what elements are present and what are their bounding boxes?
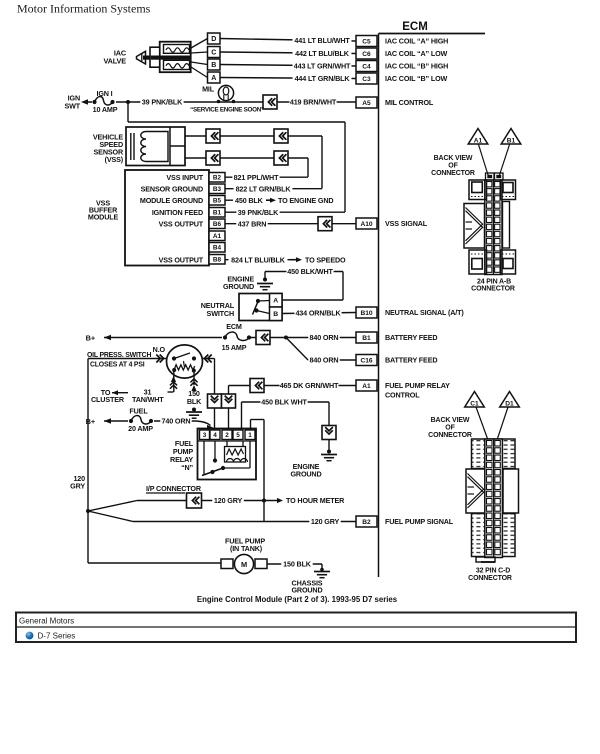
svg-text:IAC COIL “B” HIGH: IAC COIL “B” HIGH (385, 62, 448, 71)
svg-text:824 LT BLU/BLK: 824 LT BLU/BLK (231, 255, 286, 264)
svg-text:VSS INPUT: VSS INPUT (166, 173, 203, 182)
svg-text:BACK VIEW: BACK VIEW (431, 417, 470, 424)
svg-text:B2: B2 (362, 519, 371, 526)
svg-text:450 BLK: 450 BLK (235, 196, 264, 205)
svg-text:“SERVICE ENGINE SOON”: “SERVICE ENGINE SOON” (190, 107, 264, 114)
svg-text:ECM: ECM (402, 21, 428, 33)
svg-text:419 BRN/WHT: 419 BRN/WHT (290, 98, 337, 107)
svg-text:822 LT GRN/BLK: 822 LT GRN/BLK (236, 184, 292, 193)
svg-text:FUEL: FUEL (129, 407, 148, 416)
svg-text:ECM: ECM (226, 322, 242, 331)
svg-text:CONNECTOR: CONNECTOR (468, 575, 512, 582)
svg-text:TO SPEEDO: TO SPEEDO (305, 255, 346, 264)
svg-text:MIL CONTROL: MIL CONTROL (385, 98, 434, 107)
svg-text:Engine Control Module (Part 2: Engine Control Module (Part 2 of 3). 199… (197, 595, 398, 604)
svg-text:C1: C1 (470, 401, 479, 408)
svg-text:CONNECTOR: CONNECTOR (471, 286, 515, 293)
svg-text:B2: B2 (213, 175, 222, 182)
svg-text:5: 5 (236, 432, 240, 439)
svg-text:A5: A5 (362, 100, 371, 107)
svg-text:B6: B6 (213, 221, 222, 228)
svg-text:120 GRY: 120 GRY (311, 517, 340, 526)
svg-text:(IN TANK): (IN TANK) (230, 544, 263, 553)
svg-text:MODULE GROUND: MODULE GROUND (140, 196, 203, 205)
svg-text:CONTROL: CONTROL (385, 391, 420, 400)
svg-text:450 BLK WHT: 450 BLK WHT (261, 398, 307, 407)
svg-text:10 AMP: 10 AMP (93, 105, 118, 114)
svg-text:VSS OUTPUT: VSS OUTPUT (159, 256, 204, 265)
svg-text:“N”: “N” (181, 463, 193, 472)
svg-text:IAC COIL “A” HIGH: IAC COIL “A” HIGH (385, 37, 448, 46)
svg-text:B1: B1 (362, 335, 371, 342)
svg-text:NEUTRAL SIGNAL (A/T): NEUTRAL SIGNAL (A/T) (385, 308, 464, 317)
svg-text:C: C (211, 50, 216, 57)
svg-text:B1: B1 (213, 210, 222, 217)
svg-text:VSS SIGNAL: VSS SIGNAL (385, 219, 428, 228)
svg-text:C5: C5 (362, 38, 371, 45)
svg-text:N.O: N.O (153, 345, 166, 354)
svg-text:B8: B8 (213, 257, 222, 264)
svg-text:B3: B3 (213, 186, 222, 193)
svg-text:437 BRN: 437 BRN (238, 219, 267, 228)
svg-text:B: B (211, 62, 216, 69)
svg-text:B+: B+ (86, 417, 96, 426)
svg-text:VSS OUTPUT: VSS OUTPUT (159, 220, 204, 229)
svg-text:M: M (241, 560, 247, 569)
svg-text:840 ORN: 840 ORN (310, 333, 339, 342)
svg-text:A1: A1 (474, 138, 483, 145)
svg-text:B+: B+ (86, 333, 96, 342)
svg-text:443 LT GRN/WHT: 443 LT GRN/WHT (294, 61, 351, 70)
svg-text:GRY: GRY (70, 482, 85, 491)
svg-text:A: A (211, 75, 216, 82)
svg-text:OF: OF (448, 163, 458, 170)
svg-text:CONNECTOR: CONNECTOR (431, 170, 475, 177)
svg-text:A1: A1 (213, 233, 222, 240)
svg-text:39 PNK/BLK: 39 PNK/BLK (142, 98, 183, 107)
svg-text:465 DK GRN/WHT: 465 DK GRN/WHT (280, 381, 339, 390)
svg-text:D-7 Series: D-7 Series (38, 631, 76, 640)
svg-text:MIL: MIL (202, 85, 215, 94)
svg-text:B4: B4 (213, 245, 222, 252)
svg-text:C3: C3 (362, 76, 371, 83)
svg-text:FUEL PUMP RELAY: FUEL PUMP RELAY (385, 381, 450, 390)
svg-text:General Motors: General Motors (19, 617, 74, 626)
svg-text:(VSS): (VSS) (105, 155, 124, 164)
svg-text:TO HOUR METER: TO HOUR METER (286, 496, 345, 505)
svg-text:442 LT BLU/BLK: 442 LT BLU/BLK (295, 49, 350, 58)
svg-text:MODULE: MODULE (88, 213, 119, 222)
svg-text:A: A (273, 298, 278, 305)
svg-text:B5: B5 (213, 198, 222, 205)
svg-text:32 PIN C-D: 32 PIN C-D (476, 568, 510, 575)
svg-text:CLUSTER: CLUSTER (91, 395, 125, 404)
svg-text:OF: OF (445, 425, 455, 432)
svg-text:450 BLK/WHT: 450 BLK/WHT (287, 267, 333, 276)
svg-text:441 LT BLU/WHT: 441 LT BLU/WHT (294, 36, 350, 45)
svg-text:FUEL PUMP SIGNAL: FUEL PUMP SIGNAL (385, 517, 454, 526)
svg-text:GROUND: GROUND (223, 282, 254, 291)
svg-text:120 GRY: 120 GRY (214, 496, 243, 505)
svg-text:1: 1 (248, 432, 252, 439)
svg-text:SWITCH: SWITCH (207, 309, 234, 318)
svg-text:OIL PRESS. SWITCH: OIL PRESS. SWITCH (87, 352, 151, 359)
svg-text:444 LT GRN/BLK: 444 LT GRN/BLK (295, 74, 351, 83)
svg-text:IGN I: IGN I (96, 89, 112, 98)
svg-text:4: 4 (213, 432, 217, 439)
svg-text:C16: C16 (360, 357, 372, 364)
svg-text:BATTERY FEED: BATTERY FEED (385, 356, 437, 365)
svg-text:434 ORN/BLK: 434 ORN/BLK (295, 309, 341, 318)
svg-text:740 ORN: 740 ORN (162, 417, 191, 426)
svg-text:A1: A1 (362, 383, 371, 390)
svg-text:I/P CONNECTOR: I/P CONNECTOR (146, 484, 202, 493)
svg-text:BATTERY FEED: BATTERY FEED (385, 333, 437, 342)
svg-text:CONNECTOR: CONNECTOR (428, 432, 472, 439)
svg-text:D: D (211, 36, 216, 43)
svg-text:CLOSES AT 4 PSI: CLOSES AT 4 PSI (90, 362, 145, 369)
svg-text:821 PPL/WHT: 821 PPL/WHT (234, 173, 279, 182)
svg-text:840 ORN: 840 ORN (310, 356, 339, 365)
svg-text:BLK: BLK (187, 397, 202, 406)
svg-text:IAC COIL “B” LOW: IAC COIL “B” LOW (385, 74, 448, 83)
svg-text:2: 2 (225, 432, 229, 439)
svg-text:TO ENGINE GND: TO ENGINE GND (278, 196, 333, 205)
svg-text:C6: C6 (362, 51, 371, 58)
svg-text:15 AMP: 15 AMP (222, 343, 247, 352)
svg-text:B: B (273, 311, 278, 318)
svg-text:TAN/WHT: TAN/WHT (132, 395, 164, 404)
svg-text:GROUND: GROUND (290, 470, 321, 479)
svg-text:Motor Information Systems: Motor Information Systems (17, 2, 151, 16)
svg-text:24 PIN A-B: 24 PIN A-B (477, 279, 511, 286)
svg-text:150 BLK: 150 BLK (283, 560, 312, 569)
svg-text:SENSOR GROUND: SENSOR GROUND (141, 185, 203, 194)
svg-text:SWT: SWT (64, 102, 80, 111)
svg-text:BACK VIEW: BACK VIEW (434, 155, 473, 162)
svg-text:IAC COIL “A” LOW: IAC COIL “A” LOW (385, 49, 448, 58)
svg-text:IGNITION FEED: IGNITION FEED (152, 208, 203, 217)
svg-text:B1: B1 (507, 138, 516, 145)
svg-text:D1: D1 (505, 401, 514, 408)
svg-text:39 PNK/BLK: 39 PNK/BLK (238, 208, 279, 217)
svg-text:B10: B10 (360, 310, 372, 317)
svg-text:20 AMP: 20 AMP (128, 424, 153, 433)
svg-text:3: 3 (203, 432, 207, 439)
svg-text:VALVE: VALVE (104, 57, 127, 66)
svg-text:C4: C4 (362, 63, 371, 70)
svg-text:A10: A10 (360, 221, 372, 228)
svg-text:GROUND: GROUND (291, 586, 322, 595)
